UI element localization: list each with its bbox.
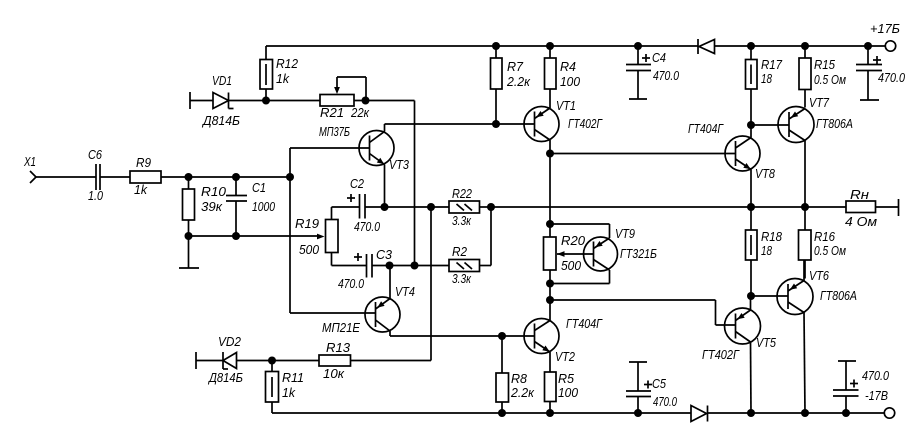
svg-text:1k: 1k	[276, 72, 290, 86]
wire R13 to vertical	[351, 207, 432, 361]
wire C2 to R22	[365, 206, 449, 208]
node junction base line	[286, 173, 294, 181]
junction VT8 collector	[747, 203, 755, 211]
junction VT6 base	[747, 292, 755, 300]
diode bottom rail	[691, 406, 708, 422]
terminal bar VD2 left	[195, 352, 197, 369]
svg-text:R12: R12	[276, 57, 298, 71]
resistor Rн 4 Ом load	[845, 188, 899, 229]
svg-text:ГТ402Г: ГТ402Г	[568, 117, 603, 131]
svg-text:VT2: VT2	[555, 350, 575, 364]
resistor R17 18	[746, 46, 783, 125]
junction feedback line bottom	[411, 262, 419, 270]
svg-text:VT3: VT3	[389, 158, 409, 172]
svg-text:C2: C2	[350, 177, 364, 191]
wire base line vertical	[289, 148, 291, 313]
resistor R12 1k	[260, 46, 298, 101]
svg-text:VT8: VT8	[755, 167, 775, 181]
resistor R11 1k	[266, 361, 305, 414]
svg-text:470.0: 470.0	[653, 395, 677, 409]
wire input to C6	[36, 176, 96, 178]
wire VT3 base	[290, 147, 370, 149]
svg-text:39к: 39к	[201, 200, 223, 214]
svg-text:100: 100	[560, 75, 580, 89]
transistor VT7 ГТ806А	[751, 96, 853, 207]
capacitor C1 1000	[226, 177, 275, 236]
wire VAS vertical line	[549, 154, 551, 321]
svg-text:C1: C1	[252, 181, 266, 195]
terminal -17В	[884, 408, 894, 418]
junction R7 bottom	[492, 120, 500, 128]
input terminal X1	[23, 155, 36, 183]
junction VT1 collector	[546, 150, 554, 158]
svg-text:ГТ402Г: ГТ402Г	[702, 348, 740, 362]
wire R21 to feedback line	[354, 100, 415, 102]
junction VT3 emitter	[381, 203, 389, 211]
ground	[179, 236, 199, 268]
potentiometer R19 500	[295, 207, 367, 266]
svg-text:R19: R19	[295, 217, 319, 231]
resistor R18 18	[746, 207, 783, 296]
svg-text:C3: C3	[376, 248, 392, 262]
junction top right cap	[864, 42, 872, 50]
transistor VT8 ГТ404Г	[688, 122, 775, 207]
svg-text:10к: 10к	[323, 367, 345, 381]
svg-text:VT6: VT6	[809, 269, 829, 283]
svg-text:470.0: 470.0	[653, 69, 679, 83]
svg-text:R16: R16	[814, 230, 835, 244]
svg-text:18: 18	[761, 72, 772, 86]
svg-text:Д814Б: Д814Б	[201, 114, 240, 128]
svg-text:18: 18	[761, 244, 772, 258]
wire output node	[491, 206, 846, 208]
svg-text:МП37Б: МП37Б	[319, 125, 350, 139]
junction VT7 base	[747, 121, 755, 129]
wire bottom negative rail	[272, 412, 884, 414]
svg-text:500: 500	[561, 259, 581, 273]
svg-text:VD2: VD2	[218, 335, 241, 349]
svg-text:R9: R9	[136, 156, 151, 170]
svg-text:VT9: VT9	[615, 227, 635, 241]
svg-text:R8: R8	[511, 372, 527, 386]
svg-text:R22: R22	[452, 187, 472, 201]
junction R17 top	[747, 42, 755, 50]
junction C1 bottom	[232, 232, 240, 240]
wire R2 right up	[480, 207, 492, 266]
svg-text:VD1: VD1	[212, 74, 232, 88]
potentiometer R21 22k	[320, 77, 370, 120]
svg-text:R10: R10	[201, 185, 226, 199]
svg-text:R21: R21	[320, 106, 344, 120]
svg-text:R13: R13	[326, 341, 350, 355]
junction VT6 collector bottom	[801, 409, 809, 417]
svg-text:R5: R5	[558, 372, 574, 386]
svg-text:МП21Е: МП21Е	[322, 321, 361, 335]
transistor VT6 ГТ806А	[751, 260, 857, 413]
junction R10 bottom	[185, 232, 193, 240]
wire VD2	[196, 360, 223, 362]
junction R15 top	[801, 42, 809, 50]
svg-text:R2: R2	[452, 245, 467, 259]
transistor VT9 ГТ321Б	[550, 224, 657, 284]
junction VT9 collector bottom	[546, 280, 554, 288]
resistor R5 100	[545, 372, 579, 413]
wire VT1 collector to VT8 base	[550, 153, 736, 155]
capacitor C3 470.0	[338, 248, 392, 291]
wire C3 to R2	[372, 265, 449, 267]
svg-text:R18: R18	[761, 230, 782, 244]
junction R21 wiper	[362, 97, 370, 105]
junction R8 top	[498, 332, 506, 340]
junction R12 bottom	[262, 97, 270, 105]
svg-text:Rн: Rн	[850, 188, 869, 202]
wire C6 to R9	[100, 176, 130, 178]
svg-text:ГТ806А: ГТ806А	[816, 117, 853, 131]
svg-text:0.5 Ом: 0.5 Ом	[814, 73, 846, 87]
svg-text:R20: R20	[561, 234, 585, 248]
svg-text:3.3к: 3.3к	[452, 272, 472, 286]
svg-text:VT4: VT4	[395, 285, 415, 299]
svg-text:R17: R17	[761, 58, 783, 72]
svg-text:ГТ321Б: ГТ321Б	[620, 247, 657, 261]
svg-text:1000: 1000	[252, 200, 275, 214]
junction C4 top	[634, 42, 642, 50]
svg-text:+17Б: +17Б	[870, 22, 900, 36]
wire top positive rail	[266, 45, 885, 47]
svg-text:ГТ404Г: ГТ404Г	[566, 317, 603, 331]
svg-text:R4: R4	[560, 60, 576, 74]
resistor R13 10k	[319, 341, 351, 381]
junction R11 top	[268, 357, 276, 365]
svg-text:R7: R7	[507, 60, 524, 74]
wire R9 to base node	[161, 176, 290, 178]
svg-text:C5: C5	[652, 377, 666, 391]
junction VT7 collector	[801, 203, 809, 211]
svg-text:100: 100	[558, 386, 578, 400]
junction VT5 collector bottom	[747, 409, 755, 417]
wire lower AC node	[189, 235, 319, 237]
svg-text:500: 500	[299, 243, 319, 257]
svg-text:3.3к: 3.3к	[452, 214, 472, 228]
svg-text:R15: R15	[814, 58, 835, 72]
resistor R4 100	[545, 46, 581, 108]
resistor R2 3.3k	[449, 245, 480, 286]
junction R4 top	[546, 42, 554, 50]
resistor R10 39k	[183, 177, 227, 236]
capacitor C6 1.0	[88, 148, 103, 203]
wire VD1 anode	[190, 100, 213, 102]
svg-text:2.2к: 2.2к	[510, 386, 535, 400]
resistor R22 3.3k	[449, 187, 480, 228]
transistor VT2 ГТ404Г	[524, 317, 603, 372]
svg-text:R11: R11	[282, 371, 304, 385]
svg-text:4 Ом: 4 Ом	[845, 215, 877, 229]
junction R7 top	[492, 42, 500, 50]
svg-text:X1: X1	[23, 155, 36, 169]
wire feedback vertical line	[414, 101, 416, 266]
junction R22 R2 right	[487, 203, 495, 211]
resistor R7 2.2k	[491, 46, 532, 124]
svg-text:-17В: -17В	[865, 389, 888, 403]
capacitor bottom right 470.0	[833, 361, 889, 413]
potentiometer R20 500	[544, 234, 594, 273]
terminal bar VD1 left	[189, 92, 191, 109]
zener diode VD1 Д814Б	[201, 74, 240, 128]
capacitor C2 470.0	[332, 177, 381, 234]
svg-text:ГТ404Г: ГТ404Г	[688, 122, 724, 136]
svg-text:C6: C6	[88, 148, 102, 162]
svg-text:470.0: 470.0	[878, 71, 905, 85]
junction bottom right cap	[842, 409, 850, 417]
wire R22 right	[480, 206, 492, 208]
svg-text:1k: 1k	[282, 386, 296, 400]
junction R5 bottom	[546, 409, 554, 417]
junction VT9 emitter top	[546, 220, 554, 228]
wire to VT5 base	[550, 300, 736, 325]
svg-text:Д814Б: Д814Б	[207, 371, 243, 385]
svg-text:470.0: 470.0	[338, 277, 364, 291]
node junction R10 top	[185, 173, 193, 181]
transistor VT4 МП21Е	[322, 266, 415, 337]
svg-text:2.2к: 2.2к	[506, 75, 531, 89]
svg-text:0.5 Ом: 0.5 Ом	[814, 244, 846, 258]
svg-text:C4: C4	[652, 51, 666, 65]
svg-text:1k: 1k	[134, 183, 148, 197]
wire VD1 to R21	[229, 100, 321, 102]
transistor VT5 ГТ402Г	[702, 296, 776, 413]
wire VD2 to R13	[237, 360, 320, 362]
svg-text:VT1: VT1	[556, 99, 576, 113]
svg-text:ГТ806А: ГТ806А	[820, 289, 857, 303]
svg-text:VT7: VT7	[809, 96, 830, 110]
capacitor C4 470.0	[626, 46, 679, 99]
resistor R16 0.5 Ом	[799, 207, 847, 279]
resistor R8 2.2k	[496, 336, 535, 413]
junction C5 bottom	[634, 409, 642, 417]
svg-text:1.0: 1.0	[88, 189, 103, 203]
node junction C1 top	[232, 173, 240, 181]
capacitor C5 470.0	[626, 362, 677, 413]
terminal +17Б	[870, 22, 900, 51]
transistor VT1 ГТ402Г	[524, 99, 603, 154]
svg-text:VT5: VT5	[756, 336, 776, 350]
wire VT4 collector to VT2 base	[390, 335, 535, 337]
wire VT4 base	[290, 312, 376, 314]
svg-text:470.0: 470.0	[862, 369, 889, 383]
svg-text:22к: 22к	[350, 106, 370, 120]
zener diode VD2 Д814Б	[207, 335, 243, 385]
transistor VT3 МП37Б	[319, 124, 409, 207]
wire VT3 collector to VT1 base	[385, 123, 535, 125]
capacitor top right 470.0	[856, 46, 905, 100]
junction R13 line top	[427, 203, 435, 211]
diode top rail	[698, 39, 715, 54]
resistor R9 1k	[130, 156, 161, 197]
junction VT4 emitter	[386, 262, 394, 270]
svg-text:470.0: 470.0	[354, 220, 380, 234]
resistor R15 0.5 Ом	[799, 46, 846, 108]
junction VT5 base wire	[546, 296, 554, 304]
junction R8 bottom	[498, 409, 506, 417]
